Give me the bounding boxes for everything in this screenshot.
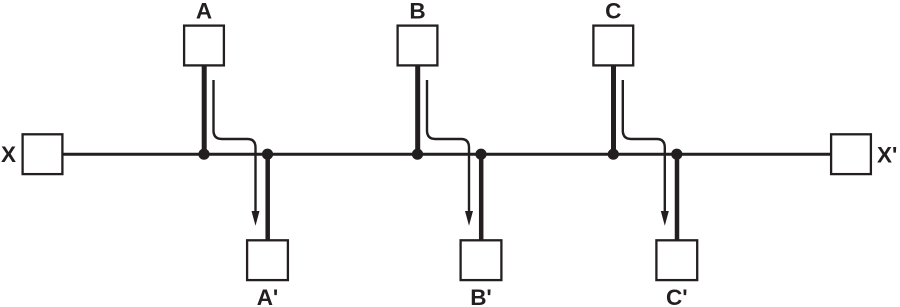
svg-text:A: A xyxy=(196,0,212,23)
arrowhead of signal path A xyxy=(252,211,260,226)
wire: drop line from bus to C' xyxy=(675,154,680,239)
terminator box X' xyxy=(831,134,871,174)
svg-text:B': B' xyxy=(470,285,492,307)
wire: signal path A (thin line with arrow) xyxy=(214,80,256,213)
wire: signal path B (thin line with arrow) xyxy=(427,80,469,213)
svg-text:X: X xyxy=(1,142,16,167)
station box C' xyxy=(656,240,697,280)
node B2 (bus tap dot) xyxy=(475,149,486,160)
station box A' xyxy=(247,240,288,280)
arrowhead of signal path B xyxy=(465,211,473,226)
wire: drop line from bus to A' xyxy=(265,154,270,239)
wire: drop line from bus to B' xyxy=(479,154,484,239)
station box A xyxy=(184,26,224,66)
svg-text:C: C xyxy=(605,0,621,23)
svg-text:X': X' xyxy=(877,143,897,168)
svg-text:C': C' xyxy=(666,285,688,307)
terminator box X xyxy=(23,134,63,174)
svg-text:A': A' xyxy=(257,285,279,307)
wire: drop line from C to bus xyxy=(611,66,616,154)
wire: drop line from A to bus xyxy=(202,66,207,154)
svg-text:B: B xyxy=(409,0,425,23)
wire: drop line from B to bus xyxy=(415,66,420,154)
node A1 (bus tap dot) xyxy=(198,149,209,160)
wire: main bus X to X' xyxy=(64,153,831,156)
node C2 (bus tap dot) xyxy=(671,149,682,160)
station box B xyxy=(398,26,438,66)
station box C xyxy=(593,26,633,66)
station box B' xyxy=(461,240,502,280)
node C1 (bus tap dot) xyxy=(608,149,619,160)
arrowhead of signal path C xyxy=(661,211,669,226)
node B1 (bus tap dot) xyxy=(412,149,423,160)
wire: signal path C (thin line with arrow) xyxy=(623,80,665,213)
node A2 (bus tap dot) xyxy=(262,149,273,160)
